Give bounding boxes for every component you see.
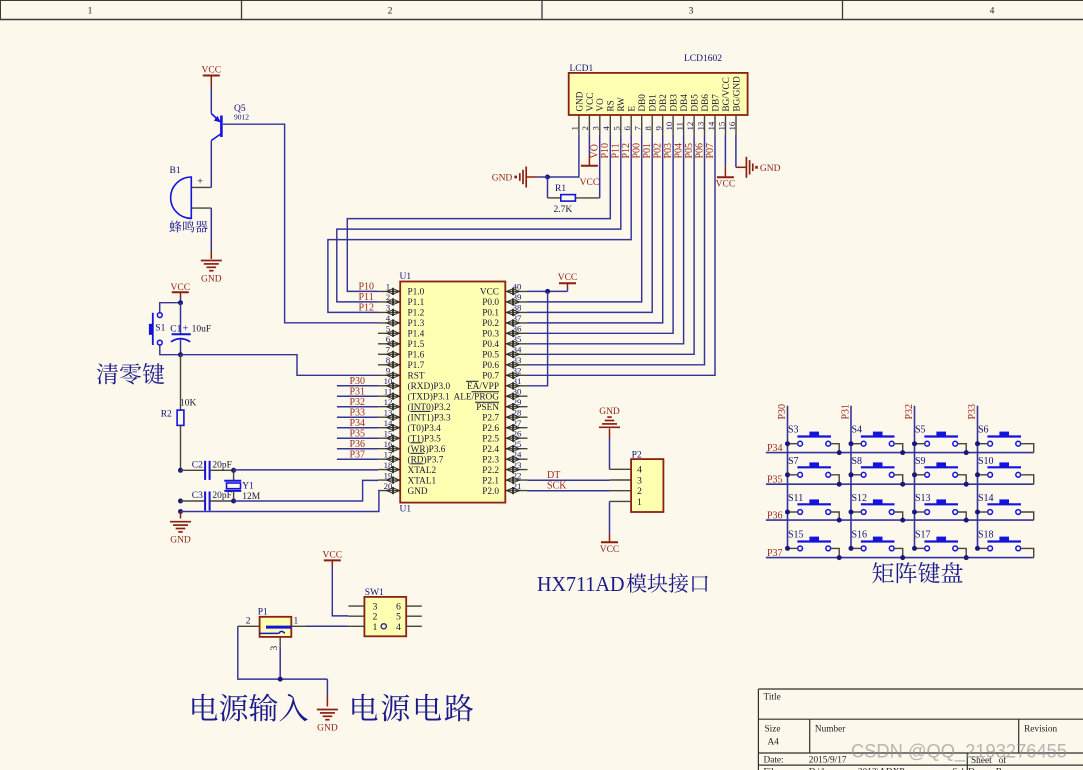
svg-text:34: 34 [513, 345, 522, 355]
svg-text:8: 8 [386, 355, 391, 365]
svg-text:P35: P35 [350, 428, 366, 439]
svg-text:30: 30 [513, 386, 522, 396]
svg-text:7: 7 [633, 126, 643, 131]
wire LCD RS to U1 P1.0 [347, 135, 610, 292]
svg-text:P1.3: P1.3 [408, 319, 425, 329]
svg-text:P10: P10 [600, 143, 611, 159]
svg-text:20pF: 20pF [212, 460, 232, 470]
svg-text:3: 3 [637, 475, 642, 486]
svg-text:+: + [183, 324, 189, 335]
watermark CSDN [851, 741, 1067, 763]
svg-text:6: 6 [386, 334, 391, 344]
node C3/Y1 junction [231, 499, 236, 504]
svg-text:P02: P02 [653, 143, 664, 159]
svg-text:RS: RS [606, 100, 616, 111]
svg-text:2: 2 [580, 126, 590, 130]
svg-text:P30: P30 [350, 376, 366, 387]
svg-text:P30: P30 [777, 404, 788, 420]
svg-text:DB0: DB0 [637, 94, 647, 112]
svg-text:DB3: DB3 [669, 94, 679, 112]
svg-text:B1: B1 [170, 166, 181, 176]
svg-text:E: E [627, 106, 637, 112]
resistor R2 10K [161, 355, 197, 471]
connector LCD1 (LCD1602 header) [569, 54, 748, 115]
svg-text:28: 28 [513, 407, 522, 417]
svg-text:P32: P32 [350, 397, 366, 408]
connector P1 (power jack) [238, 608, 306, 651]
svg-text:P2.4: P2.4 [482, 445, 499, 455]
svg-text:3: 3 [689, 7, 694, 17]
svg-text:P0.7: P0.7 [482, 371, 499, 381]
LCD1 pin names [574, 76, 741, 112]
svg-text:39: 39 [513, 292, 522, 302]
svg-text:GND: GND [492, 174, 513, 184]
svg-text:CSDN @QQ_2193276455: CSDN @QQ_2193276455 [851, 741, 1067, 763]
label 清零键 [97, 363, 165, 384]
svg-text:23: 23 [513, 460, 522, 470]
svg-text:P36: P36 [767, 511, 783, 522]
svg-text:P34: P34 [767, 443, 783, 454]
resistor R1 2.7K [548, 177, 600, 215]
svg-text:33: 33 [513, 355, 522, 365]
label HX711AD模块接口 [537, 572, 708, 596]
power VCC (reset) [171, 283, 191, 298]
svg-text:20pF: 20pF [212, 491, 232, 501]
svg-text:17: 17 [384, 449, 393, 459]
svg-text:32: 32 [513, 366, 522, 376]
wire junction to U1 RST [181, 355, 379, 376]
svg-text:2: 2 [637, 486, 642, 497]
svg-text:S8: S8 [852, 456, 863, 467]
svg-text:P33: P33 [967, 404, 978, 420]
svg-text:S11: S11 [788, 493, 803, 504]
svg-text:Y1: Y1 [242, 482, 254, 492]
svg-text:VCC: VCC [558, 273, 578, 283]
ground GND (power circuit) [317, 710, 338, 734]
net labels P30-P37 with wires to U1 P3.0-P3.7 [337, 376, 378, 460]
svg-text:Size: Size [765, 725, 781, 735]
switch S6 [975, 425, 1034, 453]
svg-text:P1.4: P1.4 [408, 330, 425, 340]
power VCC (LCD pin15 backlight) [716, 135, 736, 190]
switch S16 [849, 529, 906, 560]
svg-text:6: 6 [622, 126, 632, 131]
svg-text:3: 3 [270, 646, 280, 651]
svg-text:2.7K: 2.7K [554, 205, 573, 215]
svg-text:S14: S14 [978, 493, 994, 504]
svg-text:P32: P32 [904, 404, 915, 420]
power VCC (power circuit) [323, 551, 343, 567]
svg-text:S3: S3 [788, 425, 799, 436]
wire P2 pin1 to VCC [609, 501, 611, 542]
svg-text:(RXD)P3.0: (RXD)P3.0 [408, 381, 451, 392]
svg-text:P2.0: P2.0 [482, 487, 499, 497]
svg-text:20: 20 [384, 481, 393, 491]
node GND rail junction [178, 509, 183, 514]
svg-text:37: 37 [513, 313, 522, 323]
LCD1 net labels VO,P10-P12,P00-P07 [590, 143, 716, 159]
matrix keypad column lines P30-P33 [777, 404, 978, 548]
power VCC (LCD pin2) [580, 135, 600, 188]
svg-text:9: 9 [654, 126, 664, 131]
svg-text:VCC: VCC [585, 93, 595, 112]
svg-text:VCC: VCC [600, 545, 620, 555]
ground GND (reset/crystal) [170, 512, 191, 546]
node S1/C1/R2 junction [178, 352, 183, 357]
svg-text:29: 29 [513, 397, 522, 407]
ground GND (HX711) [599, 407, 620, 428]
wire C3 to U1 XTAL1 [234, 480, 378, 501]
svg-text:DB4: DB4 [679, 94, 689, 112]
svg-text:Title: Title [764, 693, 781, 703]
svg-text:GND: GND [408, 487, 428, 497]
svg-text:S15: S15 [788, 529, 804, 540]
switch S3 [785, 425, 842, 455]
wire VCC to U1 EA/VPP [528, 291, 548, 385]
svg-text:2: 2 [386, 292, 390, 302]
svg-text:EA/VPP: EA/VPP [467, 382, 499, 392]
svg-text:GND: GND [317, 724, 338, 734]
svg-text:P34: P34 [350, 418, 366, 429]
svg-text:P1.0: P1.0 [408, 288, 425, 298]
svg-text:10K: 10K [180, 398, 197, 408]
svg-text:R2: R2 [161, 410, 172, 420]
svg-text:P06: P06 [694, 143, 705, 159]
svg-text:3: 3 [386, 303, 391, 313]
wire LCD1 pin1 GND net [548, 135, 579, 177]
wire buzzer to ground [210, 208, 212, 259]
label 电源输入 [192, 694, 308, 722]
svg-text:31: 31 [513, 376, 522, 386]
svg-text:P0.2: P0.2 [482, 319, 499, 329]
label 矩阵键盘 [872, 562, 962, 583]
svg-text:2: 2 [246, 617, 251, 627]
svg-text:GND: GND [170, 536, 191, 546]
svg-text:BG/GND: BG/GND [731, 76, 741, 112]
svg-text:5: 5 [612, 126, 622, 131]
svg-text:SW1: SW1 [365, 588, 384, 598]
svg-text:DB6: DB6 [700, 94, 710, 112]
svg-text:13: 13 [695, 121, 705, 130]
wire U1 VCC pin 40 [528, 288, 568, 291]
wire P1 pin2 loop to ground rail [238, 626, 328, 679]
svg-text:DB1: DB1 [648, 94, 658, 112]
power VCC (HX711) [600, 542, 620, 555]
svg-text:BG/VCC: BG/VCC [721, 77, 731, 111]
switch S9 [912, 456, 969, 487]
svg-text:24: 24 [513, 449, 522, 459]
svg-text:P2.5: P2.5 [482, 434, 499, 444]
switch S17 [912, 529, 969, 560]
svg-text:C3: C3 [192, 491, 203, 501]
wire SCK: U1 P2.0 to P2 pin2 [528, 481, 610, 492]
svg-text:38: 38 [513, 303, 522, 313]
svg-text:P36: P36 [350, 439, 366, 450]
svg-text:R1: R1 [555, 184, 566, 194]
svg-text:DB5: DB5 [690, 94, 700, 112]
wire VCC rail to S1 and C1 [160, 298, 181, 313]
svg-text:13: 13 [384, 407, 393, 417]
svg-text:C1: C1 [170, 325, 181, 335]
svg-text:2015/9/17: 2015/9/17 [809, 755, 847, 765]
wire LCD RW to U1 P1.1 [337, 135, 621, 302]
switch S12 [849, 493, 906, 523]
svg-text:P2.1: P2.1 [482, 476, 499, 486]
svg-text:VCC: VCC [323, 551, 343, 561]
switch S7 [785, 456, 842, 487]
node C2 left junction [178, 468, 183, 473]
svg-text:SCK: SCK [547, 481, 567, 492]
node C3 left junction [178, 499, 183, 504]
switch S4 [849, 425, 906, 455]
svg-text:Date:: Date: [764, 755, 784, 765]
svg-text:P35: P35 [767, 475, 783, 486]
svg-text:S13: S13 [915, 493, 931, 504]
svg-text:(T0)P3.4: (T0)P3.4 [408, 423, 442, 434]
LCD1 pin stubs and numbers [570, 115, 737, 135]
crystal Y1 12M [224, 470, 260, 502]
svg-text:4: 4 [637, 465, 642, 476]
svg-text:U1: U1 [400, 505, 412, 515]
node GND/R1 junction [545, 175, 550, 180]
svg-text:1: 1 [386, 282, 390, 292]
svg-text:S10: S10 [978, 456, 994, 467]
svg-text:P03: P03 [663, 143, 674, 159]
U1 pin names [408, 288, 500, 497]
wire LCD1 pin3 VO to R1 [599, 135, 601, 198]
svg-text:S4: S4 [852, 425, 863, 436]
svg-text:XTAL2: XTAL2 [408, 466, 437, 476]
switch S10 [975, 456, 1034, 484]
svg-text:26: 26 [513, 428, 522, 438]
svg-text:10uF: 10uF [192, 325, 212, 335]
transistor Q5 9012 [211, 104, 249, 187]
capacitor C1 10uF [170, 303, 211, 355]
svg-text:3: 3 [591, 126, 601, 131]
wire C2 to U1 XTAL2 [234, 469, 378, 471]
svg-text:U1: U1 [400, 272, 412, 282]
svg-text:P1.2: P1.2 [408, 309, 425, 319]
node VCC/EA junction [545, 289, 550, 294]
connector P2 (HX711 interface) [610, 451, 664, 513]
switch S5 [912, 425, 969, 455]
svg-text:1: 1 [294, 617, 299, 627]
svg-text:P04: P04 [673, 143, 684, 159]
switch S13 [912, 493, 969, 523]
svg-text:16: 16 [384, 439, 393, 449]
svg-text:DB2: DB2 [658, 94, 668, 112]
switch S1 [149, 313, 166, 345]
svg-text:P1.7: P1.7 [408, 361, 425, 371]
svg-text:P31: P31 [350, 386, 366, 397]
matrix keypad row lines P34-P37 [766, 443, 1034, 559]
capacitor C3 20pF [181, 491, 234, 511]
svg-text:P0.5: P0.5 [482, 351, 499, 361]
svg-text:P2.7: P2.7 [482, 413, 499, 423]
wire VCC to Q5 emitter [210, 87, 212, 114]
svg-text:VCC: VCC [580, 178, 600, 188]
svg-text:+: + [197, 177, 203, 188]
svg-text:P37: P37 [767, 548, 783, 559]
wire U1 GND pin to ground rail [181, 491, 379, 512]
wire P2 pin4 to ground [609, 429, 611, 470]
svg-text:VO: VO [595, 98, 605, 112]
ground GND (buzzer) [201, 261, 222, 285]
svg-text:9: 9 [386, 366, 391, 376]
svg-text:16: 16 [727, 121, 737, 130]
wire Q5 base to U1 P1.3 [223, 124, 378, 323]
svg-text:RW: RW [616, 97, 626, 112]
capacitor C2 20pF [181, 460, 234, 480]
svg-text:15: 15 [384, 428, 393, 438]
svg-text:S16: S16 [852, 529, 868, 540]
svg-text:LCD1602: LCD1602 [684, 54, 722, 64]
svg-text:VCC: VCC [480, 288, 499, 298]
svg-text:P0.3: P0.3 [482, 330, 499, 340]
svg-text:LCD1: LCD1 [570, 64, 594, 74]
svg-text:P1: P1 [258, 608, 268, 618]
svg-text:C2: C2 [192, 460, 203, 470]
svg-text:(INT1)P3.3: (INT1)P3.3 [408, 412, 451, 423]
svg-text:P2: P2 [632, 451, 642, 461]
svg-text:VCC: VCC [202, 66, 222, 76]
wire P1 pin3 down [279, 648, 281, 680]
svg-text:5: 5 [386, 324, 391, 334]
svg-text:S17: S17 [915, 529, 931, 540]
svg-text:GND: GND [599, 407, 620, 417]
svg-text:40: 40 [513, 282, 522, 292]
svg-text:P0.6: P0.6 [482, 361, 499, 371]
switch S8 [849, 456, 906, 487]
svg-text:2: 2 [388, 7, 393, 17]
switch S18 [975, 529, 1034, 557]
svg-text:P1.5: P1.5 [408, 340, 425, 350]
svg-text:P12: P12 [621, 143, 632, 159]
svg-text:ALE/PROG: ALE/PROG [454, 392, 500, 402]
node C2/Y1 junction [231, 468, 236, 473]
svg-text:P33: P33 [350, 407, 366, 418]
ground GND (LCD pin16 backlight) [736, 135, 781, 178]
svg-text:S7: S7 [788, 456, 799, 467]
svg-text:1: 1 [570, 126, 580, 130]
svg-text:8: 8 [643, 126, 653, 131]
svg-text:18: 18 [384, 460, 393, 470]
wire DT: U1 P2.1 to P2 pin3 [528, 470, 610, 481]
svg-text:P0.0: P0.0 [482, 298, 499, 308]
svg-text:(TXD)P3.1: (TXD)P3.1 [408, 391, 450, 402]
node VCC/S1/C1 junction [178, 300, 183, 305]
svg-text:GND: GND [201, 275, 222, 285]
svg-text:DT: DT [547, 470, 560, 481]
svg-text:S6: S6 [978, 425, 989, 436]
svg-text:10: 10 [384, 376, 393, 386]
svg-text:XTAL1: XTAL1 [408, 476, 437, 486]
svg-text:11: 11 [384, 386, 392, 396]
svg-text:14: 14 [384, 418, 393, 428]
svg-text:S1: S1 [155, 324, 165, 334]
svg-text:4: 4 [601, 126, 611, 131]
node power ground junction [278, 677, 283, 682]
svg-text:GND: GND [760, 164, 781, 174]
svg-text:PSEN: PSEN [476, 403, 499, 413]
svg-text:12: 12 [685, 122, 695, 131]
switch S11 [785, 493, 842, 523]
power VCC (buzzer) [202, 66, 222, 88]
svg-text:36: 36 [513, 324, 522, 334]
svg-text:1: 1 [88, 7, 93, 17]
svg-text:21: 21 [513, 481, 522, 491]
label 电源电路 [352, 694, 473, 722]
svg-text:A4: A4 [768, 738, 780, 748]
svg-text:P2.3: P2.3 [482, 455, 499, 465]
svg-text:7: 7 [386, 345, 391, 355]
svg-text:P2.6: P2.6 [482, 424, 499, 434]
wire ground rail to GND [326, 679, 328, 706]
svg-text:P1.1: P1.1 [408, 298, 425, 308]
svg-text:Revision: Revision [1024, 725, 1057, 735]
net labels P10-P12 at U1 P1.0-P1.2 [359, 282, 375, 314]
svg-text:35: 35 [513, 334, 522, 344]
svg-text:P37: P37 [350, 449, 366, 460]
svg-text:P1.6: P1.6 [408, 351, 425, 361]
svg-text:VCC: VCC [716, 180, 736, 190]
wire S1 bottom to junction [160, 345, 181, 355]
svg-text:S5: S5 [915, 425, 926, 436]
svg-text:1: 1 [637, 497, 642, 508]
power VCC (U1 pin 40) [558, 273, 578, 288]
svg-text:11: 11 [674, 122, 684, 130]
svg-text:S12: S12 [852, 493, 868, 504]
svg-text:DB7: DB7 [710, 94, 720, 112]
svg-text:22: 22 [513, 470, 522, 480]
svg-text:Number: Number [815, 725, 846, 735]
svg-text:14: 14 [706, 121, 716, 130]
svg-text:27: 27 [513, 418, 522, 428]
wire VCC to SW1 pin2 [332, 566, 348, 616]
svg-text:P0.4: P0.4 [482, 340, 499, 350]
svg-text:12: 12 [384, 397, 393, 407]
svg-text:P07: P07 [705, 143, 716, 159]
svg-text:S9: S9 [915, 456, 926, 467]
title block [758, 689, 1083, 770]
ground GND (LCD contrast) [492, 167, 548, 188]
svg-text:P05: P05 [684, 143, 695, 159]
svg-text:GND: GND [574, 91, 584, 111]
svg-text:P31: P31 [841, 404, 852, 420]
svg-text:10: 10 [664, 121, 674, 130]
svg-text:P00: P00 [632, 143, 643, 159]
svg-text:4: 4 [386, 313, 391, 323]
switch SW1 [348, 588, 421, 636]
svg-text:HX711AD: HX711AD [537, 572, 625, 596]
svg-text:25: 25 [513, 439, 522, 449]
svg-text:P2.2: P2.2 [482, 466, 499, 476]
svg-text:9012: 9012 [234, 113, 249, 122]
svg-text:P01: P01 [642, 143, 653, 159]
svg-text:4: 4 [990, 7, 995, 17]
switch S15 [785, 529, 842, 560]
IC U1 (8051 MCU) [400, 272, 506, 515]
wire P1 pin1 to SW1 pin1 [306, 625, 348, 627]
wires LCD DB0-DB7 to U1 P0.0-P0.7 [528, 135, 716, 376]
svg-text:S18: S18 [978, 529, 994, 540]
switch S14 [975, 493, 1034, 520]
wire LCD E to U1 P1.2 [328, 135, 631, 313]
svg-text:4: 4 [396, 622, 401, 633]
svg-text:P11: P11 [611, 143, 622, 158]
svg-text:19: 19 [384, 470, 393, 480]
svg-text:VO: VO [590, 144, 601, 158]
